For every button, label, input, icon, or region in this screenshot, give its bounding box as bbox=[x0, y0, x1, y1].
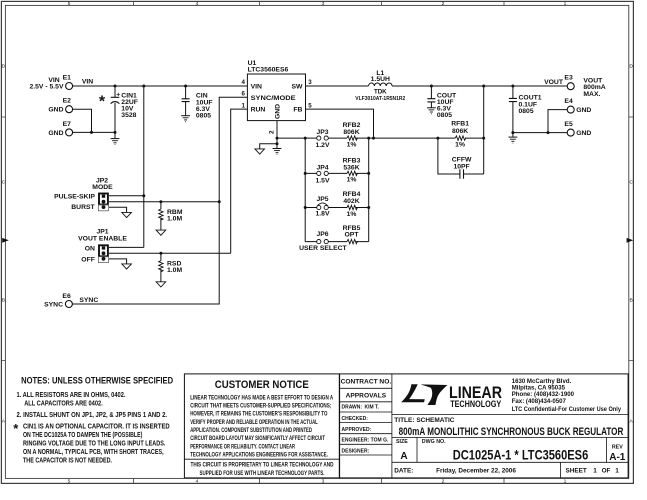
svg-text:2: 2 bbox=[442, 479, 445, 485]
svg-text:DWG NO.: DWG NO. bbox=[422, 439, 446, 445]
svg-text:+: + bbox=[116, 92, 120, 99]
svg-text:C: C bbox=[629, 180, 633, 186]
svg-text:PULSE-SKIP: PULSE-SKIP bbox=[54, 194, 95, 201]
svg-text:VIN: VIN bbox=[251, 84, 262, 91]
svg-text:REV: REV bbox=[612, 445, 623, 451]
svg-text:SUPPLIED FOR USE WITH LINEAR T: SUPPLIED FOR USE WITH LINEAR TECHNOLOGY … bbox=[200, 470, 325, 477]
svg-text:1%: 1% bbox=[347, 141, 357, 148]
svg-text:ON THE DC1025A TO DAMPEN THE (: ON THE DC1025A TO DAMPEN THE (POSSIBLE) bbox=[23, 432, 142, 439]
wire GND left branch to arrow ground bbox=[260, 144, 277, 149]
svg-text:1: 1 bbox=[242, 102, 246, 109]
wire RUN: U1 pin1 down to JP1 pin2 row bbox=[231, 109, 248, 253]
svg-text:RFB1: RFB1 bbox=[451, 121, 469, 128]
svg-text:D: D bbox=[629, 64, 633, 70]
wire CIN branch bbox=[185, 86, 187, 116]
wire feedback row segments bbox=[305, 137, 484, 139]
wire U1 GND pin down bbox=[276, 121, 278, 144]
wire VIN vertical to JP2 pin1 and JP1 pin1 bbox=[109, 86, 144, 247]
wire JP2 pin3 to arrow ground bbox=[109, 207, 127, 212]
svg-text:4: 4 bbox=[196, 479, 199, 485]
svg-text:APPROVALS: APPROVALS bbox=[346, 393, 387, 400]
svg-text:Friday, December 22, 2006: Friday, December 22, 2006 bbox=[436, 467, 516, 474]
resistor RSD 1.0M bbox=[159, 261, 183, 275]
svg-text:1. ALL RESISTORS ARE IN OHMS,: 1. ALL RESISTORS ARE IN OHMS, 0402. bbox=[17, 392, 126, 399]
ground earth below COUT1 bbox=[509, 137, 518, 143]
ground earth below CIN1 bbox=[111, 139, 120, 145]
capacitor COUT1 0.1UF 0805 bbox=[509, 95, 542, 115]
wire CIN1 top bbox=[114, 86, 116, 97]
svg-text:THIS CIRCUIT IS PROPRIETARY TO: THIS CIRCUIT IS PROPRIETARY TO LINEAR TE… bbox=[191, 462, 334, 469]
svg-text:JP4: JP4 bbox=[316, 164, 328, 171]
wire SYNC/MODE: U1 pin6 down to E6 SYNC bbox=[72, 97, 247, 304]
svg-text:SW: SW bbox=[291, 84, 303, 91]
svg-text:RUN: RUN bbox=[251, 107, 266, 114]
turret E3 VOUT bbox=[564, 75, 605, 98]
svg-text:GND: GND bbox=[48, 130, 63, 137]
wire E4 to E5 row bbox=[548, 110, 567, 133]
svg-text:B: B bbox=[629, 298, 632, 304]
svg-text:SYNC/MODE: SYNC/MODE bbox=[251, 95, 297, 102]
customer notice box bbox=[184, 374, 339, 478]
svg-text:E1: E1 bbox=[63, 75, 72, 82]
svg-text:E2: E2 bbox=[63, 98, 72, 105]
svg-text:3: 3 bbox=[308, 79, 312, 86]
resistor RBM 1.0M bbox=[159, 209, 183, 223]
capacitor CIN1 22UF 10V 3528 (polarized) bbox=[111, 92, 138, 119]
wire JP2 pin2 to SYNC vertical bbox=[109, 201, 219, 203]
svg-text:APPLICATION. COMPONENT SUBSTI: APPLICATION. COMPONENT SUBSTITUTION AND … bbox=[190, 427, 312, 434]
wire L1 to VOUT E3 bbox=[392, 85, 567, 87]
svg-text:VOUT ENABLE: VOUT ENABLE bbox=[78, 236, 127, 243]
svg-text:1.0M: 1.0M bbox=[167, 215, 182, 222]
svg-text:OF: OF bbox=[602, 467, 611, 474]
svg-text:2. INSTALL SHUNT ON JP1, JP2,: 2. INSTALL SHUNT ON JP1, JP2, & JP5 PINS… bbox=[17, 412, 168, 419]
svg-text:E3: E3 bbox=[564, 75, 573, 82]
wire CFFW left branch from FB row bbox=[438, 138, 460, 174]
ground earth below U1 GND pin bbox=[273, 149, 282, 155]
resistor RFB4 402K 1% bbox=[343, 191, 361, 218]
jumper JP6 USER SELECT bbox=[299, 231, 347, 252]
svg-text:4: 4 bbox=[242, 79, 246, 86]
svg-text:1.8V: 1.8V bbox=[316, 211, 330, 218]
svg-text:536K: 536K bbox=[343, 164, 359, 171]
svg-text:NOTES: UNLESS OTHERWISE SPECI: NOTES: UNLESS OTHERWISE SPECIFIED bbox=[21, 375, 173, 385]
turret E4 GND bbox=[564, 98, 591, 114]
wire jumper GND bus left bbox=[304, 138, 306, 242]
svg-text:GND: GND bbox=[576, 130, 591, 137]
svg-text:MODE: MODE bbox=[92, 184, 113, 191]
svg-text:DESIGNER:: DESIGNER: bbox=[342, 448, 370, 454]
wire E2 to GND node bbox=[73, 109, 92, 132]
svg-text:3528: 3528 bbox=[121, 112, 136, 119]
capacitor COUT 10UF 6.3V 0805 bbox=[427, 92, 457, 119]
svg-text:CIN1 IS AN OPTIONAL CAPACITOR.: CIN1 IS AN OPTIONAL CAPACITOR. IT IS INS… bbox=[23, 424, 170, 431]
svg-text:4: 4 bbox=[196, 1, 199, 7]
svg-text:ON: ON bbox=[85, 246, 95, 253]
svg-text:0805: 0805 bbox=[519, 108, 534, 115]
wire COUT1 branch bbox=[512, 86, 514, 137]
resistor RFB3 536K 1% bbox=[343, 157, 361, 183]
svg-text:OFF: OFF bbox=[81, 256, 95, 263]
svg-text:USER SELECT: USER SELECT bbox=[299, 245, 347, 252]
svg-text:CIRCUIT BOARD LAYOUT MAY SIGNI: CIRCUIT BOARD LAYOUT MAY SIGNIFICANTLY A… bbox=[190, 435, 325, 442]
svg-text:SHEET: SHEET bbox=[566, 467, 587, 474]
svg-text:VERIFY PROPER AND RELIABLE OPE: VERIFY PROPER AND RELIABLE OPERATION IN … bbox=[190, 419, 318, 426]
jumper JP5 1.8V with shunt arc bbox=[316, 196, 330, 218]
svg-text:OPT: OPT bbox=[345, 232, 360, 239]
svg-text:E4: E4 bbox=[564, 98, 573, 105]
wire CFFW right to VOUT vertical bbox=[464, 173, 484, 175]
svg-text:1: 1 bbox=[593, 467, 597, 474]
svg-text:1.2V: 1.2V bbox=[316, 142, 330, 149]
wire SW: U1 pin3 to L1 bbox=[306, 85, 369, 87]
svg-text:6: 6 bbox=[242, 91, 246, 98]
svg-text:CHECKED:: CHECKED: bbox=[342, 416, 369, 422]
svg-text:DRAWN:: DRAWN: bbox=[342, 405, 363, 411]
jumper JP3 1.2V bbox=[316, 129, 330, 149]
svg-text:CIRCUIT THAT MEETS CUSTOMER-SU: CIRCUIT THAT MEETS CUSTOMER-SUPPLIED SPE… bbox=[190, 403, 331, 410]
svg-text:3: 3 bbox=[322, 1, 325, 7]
inductor L1 1.5UH TDK VLF3010AT-1R5N1R2 bbox=[355, 70, 405, 102]
wire JP2 pin1 to VIN vertical bbox=[109, 195, 144, 197]
wire RBM branch bbox=[160, 202, 162, 230]
svg-text:0805: 0805 bbox=[196, 112, 211, 119]
svg-text:ALL CAPACITORS ARE 0402.: ALL CAPACITORS ARE 0402. bbox=[24, 401, 103, 408]
svg-text:402K: 402K bbox=[343, 198, 359, 205]
svg-text:10PF: 10PF bbox=[453, 164, 469, 171]
svg-text:C: C bbox=[2, 180, 6, 186]
wire JP1 pin3 to arrow ground bbox=[109, 259, 127, 264]
svg-text:ENGINEER: TOM G.: ENGINEER: TOM G. bbox=[342, 438, 389, 444]
wire RSD branch bbox=[160, 253, 162, 282]
svg-text:ON A NORMAL, TYPICAL PCB, WITH: ON A NORMAL, TYPICAL PCB, WITH SHORT TRA… bbox=[23, 449, 164, 456]
svg-text:SYNC: SYNC bbox=[79, 297, 98, 304]
title block frame bbox=[340, 374, 628, 478]
wire COUT branch bbox=[430, 86, 432, 108]
ground earth below CIN bbox=[181, 116, 190, 122]
resistor RFB1 806K 1% bbox=[451, 121, 469, 149]
svg-text:2: 2 bbox=[268, 130, 275, 134]
ground arrow below RBM bbox=[156, 230, 166, 235]
svg-text:GND: GND bbox=[576, 107, 591, 114]
wire FB: U1 pin5 to feedback row bbox=[306, 109, 374, 138]
svg-text:E5: E5 bbox=[564, 121, 573, 128]
svg-text:D: D bbox=[2, 64, 6, 70]
svg-text:TECHNOLOGY: TECHNOLOGY bbox=[450, 399, 501, 409]
turret E7 GND bbox=[48, 121, 72, 137]
jumper JP4 1.5V bbox=[316, 164, 330, 184]
svg-text:LTC Confidential-For Customer: LTC Confidential-For Customer Use Only bbox=[512, 406, 622, 413]
svg-text:800mA MONOLITHIC SYNCHRONOUS B: 800mA MONOLITHIC SYNCHRONOUS BUCK REGULA… bbox=[399, 426, 624, 438]
wire VOUT vertical to RFB1/CFFW bbox=[483, 86, 485, 174]
svg-text:E6: E6 bbox=[62, 293, 71, 300]
wire E5 row to COUT1 bottom bbox=[513, 132, 567, 134]
svg-text:JP3: JP3 bbox=[316, 129, 328, 136]
wire JP4 row bbox=[305, 172, 369, 174]
svg-text:Fax: (408)434-0507: Fax: (408)434-0507 bbox=[512, 398, 567, 405]
svg-text:LTC3560ES6: LTC3560ES6 bbox=[248, 66, 289, 73]
resistor RFB5 OPT bbox=[343, 225, 361, 244]
capacitor CFFW 10PF bbox=[452, 157, 472, 179]
wire E7 to CIN1 bottom bbox=[73, 131, 115, 133]
svg-text:806K: 806K bbox=[452, 128, 468, 135]
ground arrow below RSD bbox=[156, 282, 166, 287]
svg-text:2: 2 bbox=[442, 1, 445, 7]
capacitor CIN 10UF 6.3V 0805 bbox=[182, 93, 213, 120]
svg-text:806K: 806K bbox=[343, 129, 359, 136]
svg-text:3: 3 bbox=[322, 479, 325, 485]
svg-text:HOWEVER, IT REMAINS THE CUSTOM: HOWEVER, IT REMAINS THE CUSTOMER’S RESPO… bbox=[190, 411, 327, 418]
junction dots bbox=[90, 85, 550, 255]
svg-text:1.0M: 1.0M bbox=[167, 267, 182, 274]
svg-text:0805: 0805 bbox=[437, 112, 452, 119]
svg-text:TITLE: SCHEMATIC: TITLE: SCHEMATIC bbox=[394, 417, 454, 424]
wire JP1 pin2 to RUN vertical bbox=[109, 252, 231, 254]
svg-text:VOUT: VOUT bbox=[544, 79, 564, 86]
turret E6 SYNC bbox=[44, 293, 72, 309]
svg-text:CFFW: CFFW bbox=[452, 157, 472, 164]
svg-text:JP6: JP6 bbox=[316, 231, 328, 238]
wire CIN1 bottom to ground bbox=[114, 103, 116, 138]
svg-text:TECHNOLOGY APPLICATIONS ENGINE: TECHNOLOGY APPLICATIONS ENGINEERING FOR … bbox=[190, 452, 328, 459]
wire VIN: E1 to U1 pin 4 bbox=[73, 85, 248, 87]
svg-text:VLF3010AT-1R5N1R2: VLF3010AT-1R5N1R2 bbox=[355, 96, 405, 102]
svg-text:1: 1 bbox=[564, 479, 567, 485]
svg-text:APPROVED:: APPROVED: bbox=[342, 427, 372, 433]
svg-text:JP5: JP5 bbox=[316, 196, 328, 203]
svg-text:BURST: BURST bbox=[71, 204, 95, 211]
turret E5 GND bbox=[564, 121, 591, 137]
svg-text:5: 5 bbox=[308, 102, 312, 109]
address block bbox=[512, 378, 622, 413]
svg-text:MAX.: MAX. bbox=[583, 91, 600, 98]
svg-text:1%: 1% bbox=[347, 211, 357, 218]
svg-text:A-1: A-1 bbox=[609, 452, 626, 463]
wire GND down to earth ground bbox=[276, 144, 278, 149]
svg-text:SIZE: SIZE bbox=[396, 439, 408, 445]
ground arrow below JP2 pin3 bbox=[122, 212, 132, 217]
svg-text:1%: 1% bbox=[347, 177, 357, 184]
IC U1 LTC3560ES6 buck regulator bbox=[242, 60, 313, 134]
svg-text:RINGING VOLTAGE DUE TO THE LON: RINGING VOLTAGE DUE TO THE LONG INPUT LE… bbox=[23, 441, 165, 448]
wire JP6 row bbox=[305, 241, 369, 243]
logo LT mark bbox=[401, 384, 447, 405]
svg-text:GND: GND bbox=[48, 107, 63, 114]
svg-text:PERFORMANCE OR RELIABILITY. C: PERFORMANCE OR RELIABILITY. CONTACT LINE… bbox=[190, 443, 295, 450]
svg-text:1%: 1% bbox=[455, 142, 465, 149]
svg-text:DATE:: DATE: bbox=[394, 467, 413, 474]
wire JP5 row bbox=[305, 207, 369, 209]
svg-text:GND: GND bbox=[275, 104, 282, 119]
svg-text:SYNC: SYNC bbox=[44, 302, 63, 309]
title block left column labels bbox=[341, 379, 392, 455]
wire GND right to jumper bus bbox=[277, 137, 305, 139]
notes text block bbox=[13, 375, 173, 464]
svg-text:1: 1 bbox=[615, 467, 619, 474]
svg-text:VIN: VIN bbox=[82, 79, 93, 86]
svg-text:5: 5 bbox=[68, 479, 71, 485]
turret E2 GND bbox=[48, 98, 72, 114]
svg-text:1.5UH: 1.5UH bbox=[371, 76, 390, 83]
svg-text:TDK: TDK bbox=[374, 89, 387, 96]
wire FB bus right bbox=[368, 138, 370, 242]
svg-text:*: * bbox=[99, 94, 106, 111]
svg-text:CONTRACT NO.: CONTRACT NO. bbox=[341, 379, 392, 386]
svg-text:THE CAPACITOR IS NOT NEEDED.: THE CAPACITOR IS NOT NEEDED. bbox=[23, 458, 112, 465]
svg-text:E7: E7 bbox=[63, 121, 72, 128]
svg-text:1: 1 bbox=[564, 1, 567, 7]
turret E1 VIN bbox=[29, 75, 72, 91]
svg-text:DC1025A-1 * LTC3560ES6: DC1025A-1 * LTC3560ES6 bbox=[453, 447, 589, 462]
svg-text:LINEAR TECHNOLOGY HAS MADE A B: LINEAR TECHNOLOGY HAS MADE A BEST EFFORT… bbox=[190, 394, 333, 401]
ground arrow below JP1 pin3 bbox=[122, 264, 132, 269]
svg-text:A: A bbox=[400, 451, 407, 462]
resistor RFB2 806K 1% bbox=[343, 122, 361, 148]
jumper JP2 MODE (3-pin with shunt on 1-2) bbox=[54, 178, 113, 211]
svg-text:2.5V - 5.5V: 2.5V - 5.5V bbox=[29, 84, 63, 91]
ground earth below COUT bbox=[427, 108, 436, 114]
svg-text:KIM T.: KIM T. bbox=[365, 405, 380, 411]
svg-text:5: 5 bbox=[68, 1, 71, 7]
ground arrow left of U1 GND bbox=[255, 149, 265, 154]
svg-text:CUSTOMER NOTICE: CUSTOMER NOTICE bbox=[215, 379, 309, 391]
svg-text:FB: FB bbox=[293, 107, 302, 114]
svg-text:B: B bbox=[2, 298, 5, 304]
svg-text:1.5V: 1.5V bbox=[316, 177, 330, 184]
jumper JP1 VOUT ENABLE (3-pin with shunt on 1-2) bbox=[78, 229, 127, 264]
